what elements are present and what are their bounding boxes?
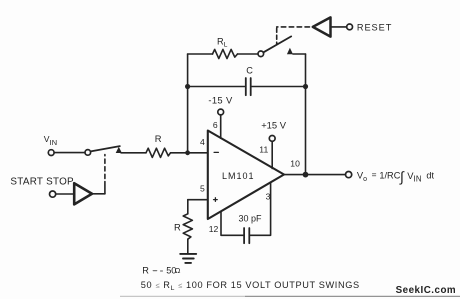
- svg-text:=: =: [372, 170, 377, 180]
- svg-text:6: 6: [213, 120, 218, 130]
- svg-text:Ω: Ω: [175, 266, 181, 275]
- svg-text:C: C: [246, 66, 253, 76]
- svg-text:R: R: [142, 265, 149, 275]
- svg-text:LM101: LM101: [222, 171, 255, 181]
- svg-text:11: 11: [259, 144, 268, 154]
- svg-text:10: 10: [290, 159, 300, 169]
- svg-text:VIN: VIN: [407, 170, 421, 184]
- svg-text:R: R: [155, 133, 162, 144]
- svg-text:dt: dt: [426, 171, 434, 181]
- svg-text:Vo: Vo: [357, 169, 367, 182]
- svg-text:VIN: VIN: [44, 134, 58, 147]
- svg-text:3: 3: [266, 192, 271, 202]
- svg-text:RL: RL: [217, 37, 228, 49]
- svg-text:12: 12: [209, 224, 219, 234]
- svg-text:-15 V: -15 V: [208, 94, 233, 105]
- svg-text:START STOP: START STOP: [10, 177, 74, 188]
- svg-text:∫: ∫: [399, 168, 405, 185]
- svg-text:50 ≤ RL ≤ 100 FOR 15 VOLT OUTP: 50 ≤ RL ≤ 100 FOR 15 VOLT OUTPUT SWINGS: [141, 280, 360, 292]
- svg-text:+15 V: +15 V: [261, 119, 287, 130]
- svg-text:4: 4: [200, 137, 205, 147]
- svg-text:30 pF: 30 pF: [239, 214, 263, 224]
- svg-text:1/RC: 1/RC: [379, 170, 400, 180]
- svg-text:R: R: [174, 222, 181, 233]
- svg-text:SeekIC.com: SeekIC.com: [396, 285, 457, 296]
- svg-text:5: 5: [200, 184, 205, 194]
- svg-text:RESET: RESET: [357, 22, 392, 32]
